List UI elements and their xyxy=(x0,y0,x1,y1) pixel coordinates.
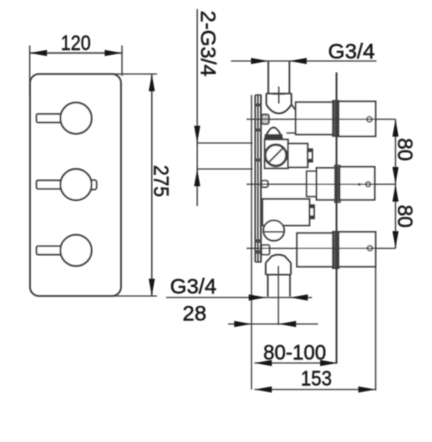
outlet pipe 3 wall coupling xyxy=(333,232,339,269)
dim 2-G3/4 ext line bottom xyxy=(197,168,252,170)
dim G3/4 bottom line xyxy=(166,297,312,299)
dim G3/4 bottom arrow left xyxy=(291,294,308,300)
dim 80 arrow down bottom xyxy=(392,231,398,248)
dim 80 arrows middle xyxy=(392,167,398,184)
svg-text:80-100: 80-100 xyxy=(263,340,326,364)
bottom valve shoulder xyxy=(266,274,291,276)
outlet pipe 2 nipple xyxy=(307,171,317,196)
inlet pipe top xyxy=(267,61,269,93)
knob 1 xyxy=(60,103,91,134)
dim 80 arrow up top xyxy=(392,119,398,136)
label 2-G3/4 leader line xyxy=(196,9,198,206)
valve 1 arch xyxy=(266,105,291,114)
valve 1 to pipe chamfer xyxy=(291,105,295,111)
svg-text:275: 275 xyxy=(149,165,173,197)
outlet pipe 2 outer section xyxy=(340,167,375,200)
dim 2-G3/4 arrow down xyxy=(194,126,200,143)
valve 1 socket sides xyxy=(266,94,291,105)
knob 2 xyxy=(60,169,91,200)
filter dome dark band xyxy=(265,134,283,139)
dim 275 extension top xyxy=(113,73,157,75)
dim 80-100 arrow left xyxy=(255,360,272,366)
pipe 1 center line xyxy=(247,118,396,120)
svg-text:80: 80 xyxy=(393,205,417,228)
dim 275 arrow up xyxy=(149,74,155,91)
dim 120 extension line right xyxy=(121,46,123,77)
front panel plate xyxy=(30,74,121,296)
screw housing right part xyxy=(288,144,308,168)
svg-text:28: 28 xyxy=(183,302,207,326)
top dim arrow left xyxy=(289,58,306,64)
dim 153 line xyxy=(255,389,376,391)
dim 120 arrow right xyxy=(105,50,122,56)
svg-text:80: 80 xyxy=(393,138,417,161)
knob 2 side tab xyxy=(90,180,96,189)
screw housing xyxy=(265,140,288,169)
dim 275 arrow down xyxy=(149,279,155,296)
dim 80-100 line xyxy=(255,362,338,364)
plate fitting 3 xyxy=(262,245,270,255)
dim 2-G3/4 arrow up xyxy=(194,169,200,186)
dim G3/4 bottom arrow right xyxy=(249,294,266,300)
bottom valve dome xyxy=(266,255,291,263)
pipe 3 center line xyxy=(247,247,396,249)
screw slot xyxy=(268,148,283,163)
dim 153 arrow right xyxy=(358,386,375,392)
dim 120 extension line left xyxy=(29,46,31,97)
knob 3 xyxy=(60,235,91,266)
pipe 2 center line xyxy=(247,183,396,185)
dim 153 arrow left xyxy=(255,386,272,392)
knob 3 handle xyxy=(37,246,62,254)
outlet pipe 2 wall coupling xyxy=(335,167,339,202)
valve 1 socket shoulder xyxy=(266,93,292,95)
outlet pipe 3 outer section xyxy=(339,232,376,267)
dim 28 arrow right xyxy=(234,321,251,327)
bottom valve sides xyxy=(266,263,291,275)
dim 28 arrow left xyxy=(279,321,296,327)
dim 275 extension bottom xyxy=(113,295,157,297)
dim 80 line xyxy=(395,119,397,248)
dim 80-100 arrow right xyxy=(320,360,337,366)
svg-text:120: 120 xyxy=(61,31,91,55)
screw housing tab xyxy=(308,149,313,162)
valve 2 tab xyxy=(310,205,315,218)
knob 2 handle xyxy=(37,180,62,188)
outlet pipe 1 wall coupling xyxy=(333,101,339,136)
svg-text:2-G3/4: 2-G3/4 xyxy=(196,11,220,77)
dim 120 arrow left xyxy=(30,50,47,56)
outlet pipe 3 inner section xyxy=(297,233,333,267)
outlet pipe 1 port circle xyxy=(367,117,372,122)
outlet pipe 2 dot xyxy=(358,183,360,185)
outlet pipe 3 port circle xyxy=(367,246,372,251)
wall mounting plate xyxy=(255,95,261,262)
pipe end ext line xyxy=(375,267,377,391)
svg-text:G3/4: G3/4 xyxy=(170,275,217,299)
dim 275 line xyxy=(151,74,153,296)
port sphere xyxy=(263,220,284,240)
inlet pipe center mark xyxy=(278,87,280,104)
outlet pipe 2 inner section xyxy=(317,168,336,200)
knob 1 handle xyxy=(37,114,62,122)
valve 2 body xyxy=(263,199,310,226)
dim 2-G3/4 ext line top xyxy=(197,142,252,144)
wall stud line xyxy=(336,72,338,363)
screw head xyxy=(265,145,286,166)
svg-text:153: 153 xyxy=(301,366,332,390)
top dim arrow right xyxy=(251,58,268,64)
filter dome xyxy=(265,128,283,140)
outlet pipe 2 port circle xyxy=(366,182,371,187)
plate fitting 1 xyxy=(262,114,269,124)
wall plate back line xyxy=(251,95,253,390)
top dim line for inlet G3/4 xyxy=(231,60,377,62)
svg-text:G3/4: G3/4 xyxy=(328,39,375,63)
valve 1 lower connector edge xyxy=(287,132,296,134)
dim 120 line xyxy=(30,52,122,54)
outlet pipe 1 outer section xyxy=(339,101,376,136)
port sphere slot xyxy=(264,231,285,233)
bottom outlet pipe xyxy=(267,275,269,297)
plate fitting 2 xyxy=(262,181,268,188)
bottom outlet center line xyxy=(277,266,279,325)
outlet pipe 1 inner section xyxy=(296,102,333,134)
dim 28 line xyxy=(228,323,318,325)
